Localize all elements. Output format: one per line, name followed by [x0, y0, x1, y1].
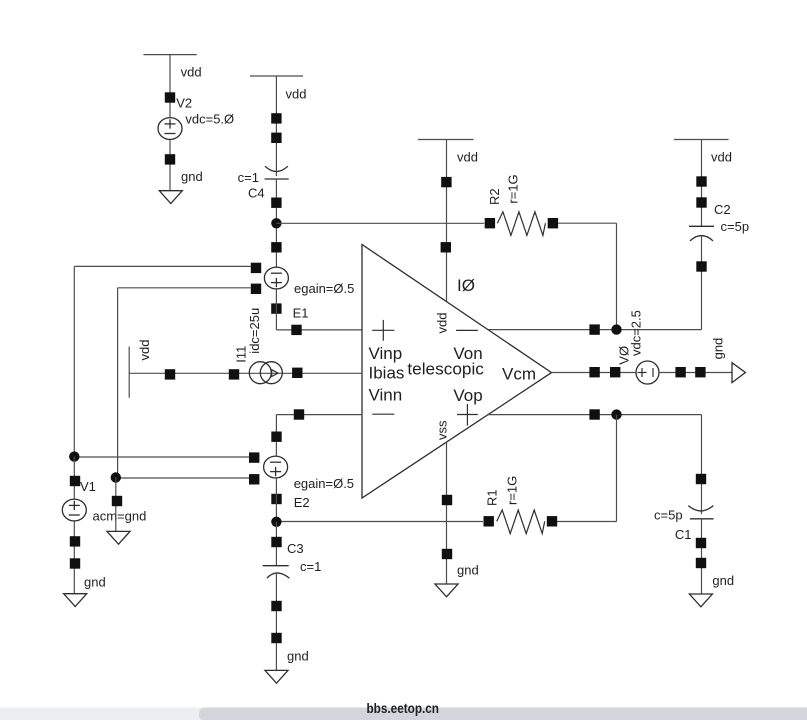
wire C3 bottom to ground	[275, 573, 277, 670]
wire E2 bottom to node n2	[275, 479, 277, 522]
pin square op-amp Von	[589, 324, 599, 334]
svg-text:Vinn: Vinn	[369, 386, 403, 405]
pin square I11 right / op-amp Ibias	[292, 368, 302, 378]
ground symbol (acm)	[107, 531, 130, 544]
pin square op-amp vss	[442, 495, 452, 505]
junction node acm bottom	[111, 472, 121, 482]
pin square op-amp Vinp	[291, 325, 301, 335]
pin square C2 top	[696, 197, 706, 207]
power rail vdd (op-amp)	[418, 139, 474, 141]
svg-text:E1: E1	[293, 306, 309, 321]
wire R2 right to node Von	[558, 223, 617, 329]
svg-text:c=1: c=1	[238, 170, 259, 185]
pin square V1 bottom	[70, 536, 80, 546]
wire E1 control input top	[74, 266, 250, 456]
wire node n2 to C3 top plate	[275, 522, 277, 566]
svg-text:V2: V2	[176, 96, 192, 111]
pin square C1 bottom	[696, 538, 706, 548]
capacitor C2	[689, 226, 714, 241]
scrollbar track	[0, 708, 807, 720]
current source I11	[249, 362, 282, 384]
svg-text:vss: vss	[435, 420, 450, 440]
svg-text:R2: R2	[487, 188, 502, 205]
svg-text:gnd: gnd	[712, 573, 734, 588]
wire op-amp vss to ground	[446, 442, 448, 584]
ground symbol (C1)	[689, 594, 712, 607]
svg-text:vdc=5.Ø: vdc=5.Ø	[185, 112, 234, 127]
wire C4 bottom plate to node n1	[275, 179, 277, 267]
svg-text:vdd: vdd	[137, 340, 152, 361]
pin square E2 control minus	[249, 474, 259, 484]
vcvs E1	[264, 267, 288, 289]
svg-text:c=5p: c=5p	[721, 219, 750, 234]
voltage source V0 (horizontal, plus left)	[636, 361, 659, 384]
junction node Vop	[611, 409, 621, 419]
pin square gnd (V1)	[70, 558, 80, 568]
pin square I11 left	[229, 369, 239, 379]
junction node n2 (E2 / R1 / C3)	[271, 517, 281, 527]
svg-text:vdd: vdd	[181, 65, 202, 80]
svg-text:c=1: c=1	[300, 559, 321, 574]
wire vdd bar to op-amp Ibias input	[129, 372, 362, 374]
svg-text:gnd: gnd	[457, 563, 479, 578]
pin square E1 control minus	[251, 284, 261, 294]
pin square R2 left	[485, 218, 495, 228]
capacitor C1	[688, 506, 713, 519]
pin square gnd (acm)	[112, 496, 122, 506]
junction node Von	[611, 324, 621, 334]
pin square op-amp Vinn	[294, 409, 304, 419]
pin square gnd (vss)	[442, 549, 452, 559]
wire vdd rail to C4 top plate	[275, 76, 277, 176]
wire node Vop to C1	[701, 415, 703, 514]
svg-text:C4: C4	[248, 186, 265, 201]
pin square gnd (V0)	[695, 367, 705, 377]
pin square V2 top	[165, 92, 175, 102]
pin square C4 top	[271, 133, 281, 143]
pin square C1 top	[696, 474, 706, 484]
svg-text:gnd: gnd	[710, 338, 725, 360]
junction node acm top (E1/E2 control, V1)	[69, 451, 79, 461]
pin square E2 top	[271, 432, 281, 442]
vcvs E2	[264, 456, 288, 478]
pin square op-amp Vcm	[589, 367, 599, 377]
wire node n1 to R2 left	[276, 222, 484, 224]
pin square V0 plus	[610, 367, 620, 377]
pin square R1 right	[547, 516, 557, 526]
wire C2 bottom to node Von	[617, 236, 702, 330]
pin square V2 bottom	[165, 154, 175, 164]
power rail vdd (V2 branch)	[143, 54, 196, 56]
svg-text:gnd: gnd	[84, 575, 106, 590]
svg-text:gnd: gnd	[287, 649, 309, 664]
wire E2 control input bottom	[116, 477, 249, 479]
wire vdd rail to op-amp vdd pin	[446, 140, 448, 302]
capacitor C4	[265, 166, 289, 179]
svg-text:bbs.eetop.cn: bbs.eetop.cn	[367, 700, 440, 716]
pin square vdd rail (C2)	[696, 176, 706, 186]
pin square E1 control plus	[251, 263, 261, 273]
wire acm node to ground	[115, 478, 117, 532]
wire op-amp Vcm output to V0	[552, 372, 637, 374]
pin square gnd (C1)	[696, 558, 706, 568]
pin square vdd rail (C4)	[271, 113, 281, 123]
svg-text:r=1G: r=1G	[505, 476, 520, 505]
resistor R1	[497, 510, 545, 534]
pin square op-amp vdd	[441, 242, 451, 252]
wire vdd rail to V2 plus terminal	[169, 55, 171, 117]
pin square E1 top	[271, 242, 281, 252]
power bar vdd (I11, rotated rail)	[128, 347, 130, 398]
wire node n2 to R1 and riser to Vop	[276, 415, 616, 522]
svg-text:IØ: IØ	[457, 276, 475, 295]
pin square vdd bar (I11)	[165, 369, 175, 379]
wire V0 minus to ground	[659, 372, 732, 374]
pin square V0 minus	[675, 367, 685, 377]
pin square C4 bottom	[271, 198, 281, 208]
wire E2 control input top	[74, 456, 249, 458]
svg-text:Ibias: Ibias	[369, 364, 405, 383]
svg-text:vdd: vdd	[457, 150, 478, 165]
wire V2 minus terminal to ground	[169, 140, 171, 191]
voltage source V2	[158, 118, 182, 140]
power rail vdd (C4 branch)	[250, 75, 303, 77]
ground symbol (V0, pointing right)	[732, 363, 745, 383]
svg-text:Vop: Vop	[453, 386, 482, 405]
svg-text:E2: E2	[294, 495, 310, 510]
wire op-amp Von output	[488, 329, 617, 331]
svg-text:Von: Von	[453, 344, 482, 363]
pin square V1 top	[70, 476, 80, 486]
svg-text:Vinp: Vinp	[369, 344, 403, 363]
svg-text:idc=25u: idc=25u	[247, 308, 262, 354]
resistor R2	[497, 212, 545, 236]
pin square E2 bottom	[271, 494, 281, 504]
svg-text:egain=Ø.5: egain=Ø.5	[294, 476, 354, 491]
svg-text:vdd: vdd	[435, 313, 450, 334]
svg-text:egain=Ø.5: egain=Ø.5	[294, 281, 354, 296]
pin square E2 control plus	[249, 452, 259, 462]
power rail vdd (C2 branch)	[674, 139, 729, 141]
pin square E1 bottom	[271, 303, 281, 313]
svg-text:vdc=2.5: vdc=2.5	[629, 310, 644, 356]
svg-text:R1: R1	[485, 489, 500, 506]
svg-text:gnd: gnd	[181, 169, 203, 184]
voltage source V1	[62, 499, 86, 521]
scrollbar thumb	[199, 708, 807, 720]
svg-text:acm=gnd: acm=gnd	[93, 509, 147, 524]
wire E1 output to op-amp Vinp	[276, 290, 362, 330]
capacitor C3	[263, 566, 290, 579]
pin square R1 left	[484, 516, 494, 526]
pin square C2 bottom	[696, 261, 706, 271]
wire op-amp Vinn to E2 top	[276, 415, 362, 456]
pin square C3 bottom	[271, 601, 281, 611]
wire C1 bottom to ground	[701, 519, 703, 594]
op-amp U1 telescopic	[362, 245, 552, 499]
ground symbol (vss)	[435, 584, 458, 597]
svg-text:c=5p: c=5p	[654, 507, 683, 522]
wire E1 control input bottom	[118, 288, 251, 478]
svg-text:r=1G: r=1G	[506, 174, 521, 203]
pin square op-amp Vop	[589, 409, 599, 419]
wire V1 to ground	[73, 522, 75, 594]
pin square gnd (C3)	[271, 633, 281, 643]
ground symbol (C3)	[265, 670, 288, 683]
svg-text:vdd: vdd	[286, 87, 307, 102]
svg-text:Vcm: Vcm	[502, 365, 536, 384]
svg-text:V1: V1	[80, 479, 96, 494]
ground symbol (V1)	[64, 594, 87, 607]
pin square C3 top	[271, 537, 281, 547]
pin square vdd rail (op-amp)	[441, 177, 451, 187]
svg-text:C2: C2	[714, 202, 731, 217]
wire op-amp Vop output	[487, 414, 702, 416]
svg-text:C1: C1	[675, 527, 692, 542]
wire vdd rail to C2 top plate	[701, 140, 703, 227]
junction node n1 (C4 / R2 / E1)	[271, 218, 281, 228]
pin square R2 right	[548, 218, 558, 228]
svg-text:C3: C3	[287, 541, 304, 556]
wire node to V1	[73, 457, 75, 499]
svg-text:vdd: vdd	[711, 150, 732, 165]
ground symbol (V2)	[159, 191, 182, 204]
